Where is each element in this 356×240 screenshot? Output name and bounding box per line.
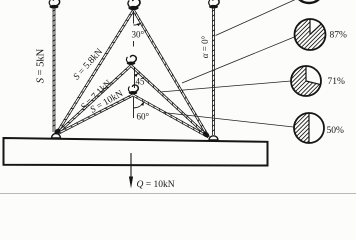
- vertical ref 60: [133, 97, 135, 118]
- leader to 87% circle: [182, 37, 296, 84]
- beam: [4, 138, 268, 166]
- hook apex 30: [128, 0, 140, 10]
- sling 45-left S=7.1kN: [56, 66, 131, 135]
- angle arc 45: [135, 73, 139, 76]
- svg-text:60°: 60°: [137, 112, 150, 122]
- hook apex 45: [126, 55, 136, 65]
- vertical ref 45: [134, 68, 136, 88]
- svg-text:Q = 10kN: Q = 10kN: [137, 180, 175, 190]
- page rule line: [0, 193, 356, 195]
- sling 60-left S=10kN: [56, 95, 133, 135]
- sling 30-right: [134, 10, 209, 137]
- right attachment eye: [209, 136, 218, 140]
- load arrow Q: [130, 153, 132, 181]
- hook left rope: [49, 0, 59, 9]
- sling 45-right: [131, 66, 209, 138]
- pie circle 87%: [233, 16, 356, 53]
- sling 60-right: [133, 95, 209, 137]
- svg-text:71%: 71%: [328, 77, 346, 87]
- hook apex 60: [128, 85, 138, 95]
- angle arc 60: [134, 101, 145, 108]
- leader to 50% circle: [163, 113, 294, 128]
- pie circle 100% (cut off at top): [294, 0, 324, 3]
- left vertical rope S=5kN: [53, 7, 56, 132]
- angle arc 30: [134, 23, 142, 25]
- svg-text:50%: 50%: [327, 126, 345, 136]
- left attachment eye: [52, 134, 61, 139]
- right vertical rope alpha=0: [212, 7, 215, 135]
- leader to 71% circle: [160, 81, 291, 92]
- pie circle 71%: [229, 63, 356, 99]
- sling 30-left S=5.8kN: [56, 10, 134, 135]
- junction left attachment: [53, 127, 61, 135]
- svg-text:45°: 45°: [136, 77, 149, 87]
- svg-text:87%: 87%: [330, 31, 348, 41]
- svg-text:α = 0°: α = 0°: [200, 35, 210, 58]
- pie circle 50%: [232, 110, 356, 146]
- hook right rope: [209, 0, 219, 9]
- svg-text:S = 5kN: S = 5kN: [36, 48, 47, 83]
- svg-text:30°: 30°: [132, 30, 145, 40]
- leader to 100% circle: [216, 0, 298, 36]
- junction right attachment: [202, 130, 211, 138]
- vertical ref 30 (dashed): [133, 11, 135, 24]
